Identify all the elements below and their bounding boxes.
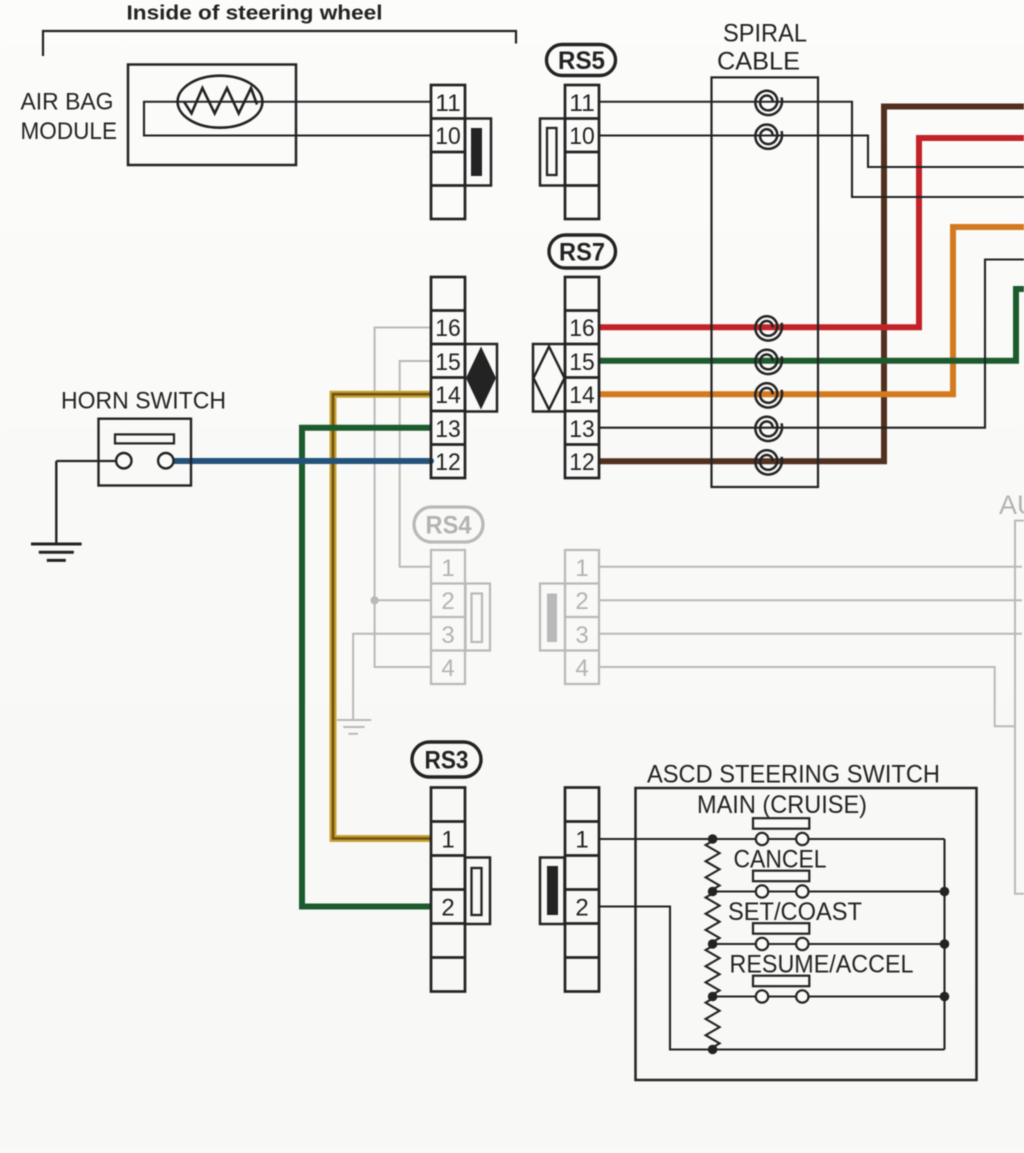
svg-text:1: 1 xyxy=(575,555,588,582)
svg-text:11: 11 xyxy=(569,90,595,117)
svg-text:RS5: RS5 xyxy=(558,47,605,75)
svg-text:AIR BAG: AIR BAG xyxy=(21,89,114,116)
svg-text:2: 2 xyxy=(441,588,454,615)
svg-text:16: 16 xyxy=(569,315,595,342)
svg-text:13: 13 xyxy=(569,416,595,443)
svg-text:2: 2 xyxy=(575,895,588,922)
svg-text:RESUME/ACCEL: RESUME/ACCEL xyxy=(730,951,914,979)
svg-text:14: 14 xyxy=(569,382,595,409)
svg-text:Inside of steering wheel: Inside of steering wheel xyxy=(127,2,383,24)
svg-text:12: 12 xyxy=(569,449,595,476)
svg-text:HORN SWITCH: HORN SWITCH xyxy=(61,388,226,415)
svg-text:15: 15 xyxy=(569,349,595,376)
svg-text:3: 3 xyxy=(441,622,454,649)
svg-text:SPIRAL: SPIRAL xyxy=(723,20,807,48)
svg-text:11: 11 xyxy=(435,90,461,117)
svg-text:ASCD STEERING SWITCH: ASCD STEERING SWITCH xyxy=(647,761,940,789)
svg-text:1: 1 xyxy=(441,827,454,854)
svg-text:AUD: AUD xyxy=(999,490,1024,520)
svg-text:4: 4 xyxy=(575,655,588,682)
svg-text:15: 15 xyxy=(435,349,461,376)
svg-text:10: 10 xyxy=(435,123,461,150)
svg-text:2: 2 xyxy=(575,588,588,615)
svg-text:MODULE: MODULE xyxy=(21,118,118,145)
svg-text:RS4: RS4 xyxy=(426,512,472,540)
svg-text:SET/COAST: SET/COAST xyxy=(728,898,862,926)
svg-text:10: 10 xyxy=(569,123,595,150)
svg-text:RS3: RS3 xyxy=(425,747,469,775)
svg-text:1: 1 xyxy=(575,827,588,854)
svg-text:4: 4 xyxy=(441,655,454,682)
svg-text:16: 16 xyxy=(435,315,461,342)
svg-text:3: 3 xyxy=(575,622,588,649)
svg-text:RS7: RS7 xyxy=(559,239,605,267)
svg-text:12: 12 xyxy=(435,449,461,476)
svg-text:CABLE: CABLE xyxy=(717,48,800,76)
svg-text:CANCEL: CANCEL xyxy=(734,846,827,874)
svg-text:1: 1 xyxy=(441,555,454,582)
svg-text:2: 2 xyxy=(441,895,454,922)
svg-text:MAIN (CRUISE): MAIN (CRUISE) xyxy=(697,791,867,819)
svg-text:13: 13 xyxy=(435,416,461,443)
svg-text:14: 14 xyxy=(435,382,461,409)
